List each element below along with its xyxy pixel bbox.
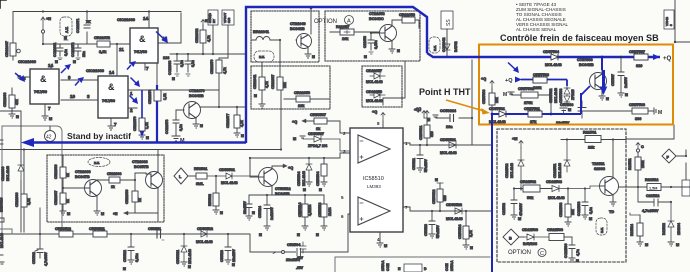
node +Q near CC58824: [414, 108, 430, 118]
svg-text:+Q: +Q: [663, 56, 672, 62]
wire CT21688 emitter down: [157, 213, 159, 222]
svg-text:CD57501: CD57501: [489, 107, 505, 111]
svg-text:MCL4148: MCL4148: [302, 171, 306, 186]
dashed box D6 option C: [497, 129, 626, 262]
svg-text:CD58507: CD58507: [308, 132, 324, 136]
svg-text:100k: 100k: [641, 160, 645, 168]
svg-text:Contrôle frein de faisceau moy: Contrôle frein de faisceau moyen SB: [500, 33, 659, 43]
svg-text:C58502: C58502: [32, 252, 36, 264]
svg-text:CD57504: CD57504: [543, 50, 560, 54]
svg-text:CC21663: CC21663: [168, 61, 172, 75]
svg-text:M: M: [303, 188, 306, 192]
svg-text:CR21659: CR21659: [399, 13, 415, 17]
svg-text:1,8k: 1,8k: [163, 93, 167, 100]
svg-text:CT58512: CT58512: [275, 187, 291, 191]
wire top right vertical: [675, 0, 690, 42]
svg-text:7: 7: [48, 106, 51, 111]
ground CR21687: [60, 211, 66, 215]
diode CD58521 MCL4148: [440, 138, 457, 155]
node +Q arrow right end: [653, 54, 660, 60]
wire emitter row y195: [249, 195, 324, 205]
svg-text:LM393: LM393: [367, 184, 381, 189]
diodes CD57502 CD57503 ZPD15: [549, 86, 575, 106]
svg-text:1u/100V: 1u/100V: [270, 206, 274, 220]
svg-text:MCL4148: MCL4148: [446, 217, 463, 221]
n.v. box CC21642: [429, 37, 446, 53]
wire oscillator node: [280, 40, 299, 62]
svg-text:1,8k: 1,8k: [145, 122, 149, 129]
blue arrow at gate2 pin2: [141, 90, 143, 131]
diode CD58504 MCL4148: [297, 158, 312, 192]
svg-text:M: M: [241, 134, 244, 138]
wire pin8 supply: [382, 121, 384, 128]
svg-text:CR21682: CR21682: [195, 29, 199, 43]
resistor CR57503 120k: [533, 73, 549, 90]
capacitor C57507 1u/50V: [611, 56, 628, 93]
transistor Q CT21686: [63, 170, 109, 211]
capacitor CC21672: [71, 43, 86, 64]
svg-text:+Q: +Q: [481, 77, 486, 81]
logic gate U2 74LV00 G2: [68, 70, 133, 127]
svg-text:2: 2: [343, 131, 346, 136]
svg-text:CC21673: CC21673: [165, 120, 169, 134]
svg-text:10n: 10n: [446, 125, 453, 129]
svg-text:10k: 10k: [571, 209, 575, 215]
svg-text:M: M: [589, 217, 592, 221]
arrow b: [65, 64, 72, 70]
wire pin4 ground: [379, 232, 381, 243]
svg-text:MCL4148: MCL4148: [548, 196, 565, 200]
svg-text:5: 5: [341, 195, 344, 200]
svg-text:C58512: C58512: [123, 250, 127, 262]
svg-text:BY: BY: [212, 19, 216, 23]
corner mark: [0, 0, 6, 8]
diode CD58507 ZPD2,7: [293, 132, 350, 151]
ground above node y114: [560, 108, 567, 111]
op-amp IC58510 box: [350, 128, 403, 232]
resistor CR57502 270k: [512, 87, 551, 114]
svg-text:M: M: [470, 246, 473, 250]
resistor CR57503 body: [533, 77, 547, 83]
capacitor C58512 0,22u: [123, 234, 139, 271]
svg-text:R21657: R21657: [336, 25, 349, 29]
node +H: [201, 19, 208, 25]
svg-text:CC21506: CC21506: [564, 244, 568, 258]
svg-text:3,9k: 3,9k: [27, 198, 31, 205]
svg-text:CC21671: CC21671: [76, 19, 80, 33]
capacitor C58521 47u/25V: [412, 145, 428, 173]
svg-text:0,1u: 0,1u: [180, 60, 184, 67]
svg-text:M: M: [16, 115, 19, 119]
diamond node B: [503, 229, 524, 245]
svg-text:22n: 22n: [82, 51, 86, 57]
svg-text:ZPD2,7 2%: ZPD2,7 2%: [308, 144, 328, 148]
svg-text:820: 820: [430, 131, 434, 137]
svg-text:7: 7: [405, 205, 408, 210]
label OPTION C: [508, 249, 546, 258]
svg-text:0,1u: 0,1u: [589, 207, 593, 214]
svg-text:C58514: C58514: [258, 206, 262, 218]
resistor CR21667: [5, 41, 20, 60]
svg-text:1N4004: 1N4004: [677, 223, 681, 235]
wire option A feed: [383, 61, 405, 105]
svg-text:270k: 270k: [524, 101, 533, 105]
resistor CR21641: [253, 62, 269, 108]
svg-text:MCL4148: MCL4148: [440, 151, 457, 155]
node H arrow: [41, 17, 51, 45]
svg-text:M: M: [64, 36, 67, 40]
svg-text:42: 42: [46, 135, 52, 141]
svg-text:22k: 22k: [588, 146, 595, 150]
svg-text:CR58512: CR58512: [55, 227, 71, 231]
capacitor C58523 47u/25V: [424, 211, 440, 239]
resistor R58502: [208, 176, 223, 215]
svg-text:M: M: [252, 211, 255, 215]
svg-text:C58521: C58521: [412, 158, 416, 170]
svg-text:+Q: +Q: [416, 107, 421, 111]
blue arrow into CT57506 emitter: [602, 70, 605, 87]
svg-text:A: A: [347, 19, 351, 25]
svg-text:M: M: [293, 137, 296, 141]
wire R21514 top: [630, 213, 640, 215]
svg-text:CR21503: CR21503: [559, 203, 563, 217]
svg-text:4,7k: 4,7k: [265, 81, 269, 88]
svg-text:133: 133: [163, 56, 169, 60]
blue wire orange-box node rail: [492, 93, 581, 272]
resistor CR58513 1k: [316, 203, 332, 237]
node +Q feed CR58507: [292, 119, 306, 124]
resistor CR21668 47k: [3, 88, 19, 119]
svg-text:CR57503: CR57503: [533, 73, 549, 77]
svg-text:BC848B: BC848B: [290, 27, 305, 31]
svg-text:M: M: [254, 94, 257, 98]
rounded box connector area: [2, 126, 62, 232]
diode CD57501 body: [499, 111, 506, 117]
svg-text:M: M: [67, 212, 70, 216]
svg-text:M: M: [146, 136, 149, 140]
node circle 42: [45, 126, 56, 142]
ground TD emitter: [610, 202, 616, 206]
svg-text:Point H THT: Point H THT: [419, 87, 471, 97]
svg-text:&: &: [139, 34, 146, 44]
svg-text:n.v.: n.v.: [433, 45, 437, 51]
svg-text:CD21506: CD21506: [522, 228, 538, 232]
svg-text:CR21641: CR21641: [253, 75, 257, 89]
node +Q arrow CR57503: [515, 77, 522, 83]
svg-text:M: M: [568, 108, 571, 112]
resistor CR58512: [55, 227, 73, 237]
capacitor C21502 47u/63V: [502, 189, 523, 222]
capacitor CC21503 0,1u: [577, 187, 593, 221]
svg-text:CR21637: CR21637: [271, 75, 275, 89]
svg-text:C57507: C57507: [611, 74, 615, 86]
svg-text:74LV00: 74LV00: [34, 90, 47, 94]
diode CD57501 MCL4148: [489, 107, 506, 124]
svg-text:BC848C: BC848C: [369, 17, 384, 21]
svg-text:CR58504: CR58504: [316, 172, 320, 186]
diode CD57504 MCL4148: [543, 50, 562, 67]
svg-text:R21511: R21511: [628, 158, 632, 170]
blue wire +Q line in orange box: [427, 53, 660, 57]
svg-text:C21658: C21658: [363, 36, 367, 48]
diode D21512 1N4004: [662, 201, 681, 247]
svg-text:CT21688: CT21688: [132, 160, 148, 164]
capacitor C21512 4,7u350V: [638, 187, 671, 213]
connector stubs left edge: [0, 218, 4, 264]
svg-text:TD: TD: [609, 210, 614, 214]
svg-text:OPTION: OPTION: [314, 19, 337, 25]
svg-text:CR58522: CR58522: [432, 190, 436, 204]
svg-text:SS: SS: [446, 19, 452, 26]
svg-text:4,7k: 4,7k: [240, 120, 244, 127]
n.v. ellipse in D5: [88, 158, 110, 167]
svg-text:CR21673: CR21673: [148, 90, 152, 104]
resistor CR21686: [54, 155, 70, 188]
svg-text:C58513: C58513: [220, 250, 224, 262]
svg-text:CR21672: CR21672: [94, 36, 110, 40]
arrow j in orange box: [513, 66, 519, 73]
resistor CR57506 390: [586, 103, 654, 121]
svg-text:+Q: +Q: [372, 110, 377, 114]
svg-text:M: M: [49, 117, 52, 121]
svg-text:1u/50V: 1u/50V: [624, 76, 628, 88]
label OPTION A: [314, 16, 354, 26]
wire from H down and across caps: [43, 12, 117, 45]
svg-text:MCL4148: MCL4148: [554, 88, 558, 103]
svg-text:R58502: R58502: [208, 194, 212, 206]
svg-text:2,7k: 2,7k: [469, 230, 473, 237]
wire net y187: [619, 186, 690, 188]
svg-text:M: M: [200, 124, 203, 128]
capacitor CC21671: [76, 19, 91, 33]
svg-text:CT21670: CT21670: [189, 89, 205, 93]
svg-text:C: C: [641, 145, 644, 149]
svg-text:OCH: OCH: [386, 263, 390, 271]
svg-text:MCL4148: MCL4148: [510, 163, 514, 178]
svg-text:M: M: [503, 92, 507, 98]
svg-text:C57506: C57506: [560, 103, 573, 107]
svg-text:CT57506: CT57506: [577, 58, 593, 62]
svg-text:0,1u: 0,1u: [179, 124, 183, 131]
arrow a: [19, 75, 25, 82]
svg-text:820: 820: [636, 64, 642, 68]
left column wires: [21, 126, 24, 232]
svg-text:0,1u: 0,1u: [191, 60, 195, 67]
resistor CR57507 820: [629, 50, 648, 68]
resistor CR57507 body: [634, 54, 648, 60]
ground G2 pin7: [108, 126, 114, 130]
orange arrow to node: [446, 100, 484, 111]
svg-text:M: M: [123, 267, 126, 271]
svg-text:CD58511: CD58511: [176, 250, 180, 264]
svg-text:M: M: [319, 188, 322, 192]
capacitor C58514 1u/100V: [258, 205, 274, 237]
svg-text:M: M: [364, 55, 367, 59]
diode CD21503 MCL4148: [546, 180, 599, 200]
svg-text:47u/63V: 47u/63V: [519, 202, 523, 216]
wire collector feed: [156, 63, 158, 85]
diode CD21502 MCL4148: [505, 148, 524, 190]
svg-text:CD21686: CD21686: [1, 167, 5, 181]
svg-text:CR21506: CR21506: [547, 228, 563, 232]
svg-text:6: 6: [341, 214, 344, 219]
junction top bus: [42, 10, 44, 12]
transistor Q CT21640: [290, 7, 312, 54]
wire left bus stubs: [0, 229, 12, 234]
inductor BR21641: [251, 30, 280, 40]
svg-text:MCL4148: MCL4148: [221, 181, 238, 185]
svg-text:BR21641: BR21641: [253, 30, 269, 34]
svg-text:M: M: [625, 93, 628, 97]
svg-text:M: M: [316, 233, 319, 237]
capacitor C58513: [220, 234, 236, 267]
svg-text:Stand by inactif: Stand by inactif: [67, 131, 131, 141]
svg-text:M: M: [606, 97, 609, 101]
resistor CR21677 4,7k: [226, 107, 244, 138]
svg-text:CD21657: CD21657: [366, 69, 382, 73]
svg-text:n.v.: n.v.: [600, 227, 604, 233]
diode CD57504 body: [551, 54, 558, 60]
svg-text:CR21666: CR21666: [15, 193, 19, 207]
svg-text:1k: 1k: [111, 185, 115, 189]
ground CT21686 emitter: [94, 211, 100, 215]
svg-text:n.v.: n.v.: [259, 55, 265, 59]
svg-text:AL CHASIS SENAL: AL CHASIS SENAL: [516, 27, 557, 32]
svg-text:C: C: [540, 251, 544, 257]
svg-text:22u/25V: 22u/25V: [232, 248, 236, 262]
svg-text:C21502: C21502: [502, 203, 506, 215]
capacitor CC21664: [185, 54, 195, 76]
resistor R21657 10k: [330, 25, 379, 41]
diamond node L: [174, 168, 196, 184]
svg-text:0,15u: 0,15u: [374, 40, 378, 49]
svg-text:CR58507: CR58507: [310, 113, 326, 117]
resistor CR58524 2,7k: [458, 211, 473, 250]
capacitor C57506 10u50V: [556, 101, 586, 125]
blue net gate2 to stand-by rail: [156, 85, 158, 143]
svg-text:CC21661: CC21661: [53, 43, 57, 57]
svg-text:M: M: [172, 77, 175, 81]
resistor CR57508 10k: [482, 88, 499, 114]
svg-text:CT21640: CT21640: [290, 22, 306, 26]
resistor CR21688: [107, 172, 146, 191]
svg-text:CR57507: CR57507: [629, 50, 645, 54]
svg-text:S2098: S2098: [594, 167, 605, 171]
svg-text:3k2L: 3k2L: [196, 182, 204, 186]
svg-text:CD58521: CD58521: [440, 138, 456, 142]
wire bus y158 to pin3: [250, 153, 350, 158]
svg-text:1: 1: [405, 141, 408, 146]
transistor Q CT21688: [132, 150, 163, 214]
svg-text:R58501: R58501: [194, 167, 207, 171]
svg-text:CD21551: CD21551: [553, 164, 557, 178]
n.v. box near T21511: [596, 218, 607, 235]
capacitor C58511 22u/25V: [243, 200, 255, 220]
resistor CR21672 3,3k: [94, 36, 110, 54]
ground CR57502 left: [508, 92, 514, 94]
arrow g: [134, 80, 140, 87]
dashed box resistors D3: [251, 66, 330, 109]
resistor CR21679 4,7k: [210, 58, 228, 107]
svg-text:M: M: [188, 265, 191, 269]
node +Q CR58521: [416, 107, 429, 118]
blue wire collector CT57506: [601, 57, 603, 70]
n.v. option box: [254, 51, 274, 62]
svg-text:OPTION: OPTION: [508, 250, 531, 256]
svg-text:T21511: T21511: [592, 162, 605, 166]
svg-text:B: B: [509, 237, 512, 241]
svg-text:M: M: [576, 259, 579, 263]
svg-text:47k: 47k: [15, 99, 19, 105]
resistor CR58511: [89, 227, 107, 237]
svg-text:ZPD15: ZPD15: [571, 89, 575, 100]
svg-text:4,7u350V: 4,7u350V: [642, 209, 659, 213]
svg-text:CD57502: CD57502: [549, 89, 553, 103]
svg-text:MCL4148: MCL4148: [366, 99, 383, 103]
diode CD58511 MCL4148: [176, 234, 192, 269]
resistor CR58521 820: [419, 118, 434, 145]
svg-text:CC58824: CC58824: [440, 109, 457, 113]
resistor CR21673 body: [154, 90, 161, 101]
svg-text:&: &: [108, 82, 115, 92]
orange highlight box Controle frein: [479, 45, 673, 125]
svg-text:MCL4148: MCL4148: [6, 166, 10, 181]
svg-text:22k: 22k: [298, 104, 305, 108]
resistor R58501: [194, 167, 207, 186]
resistor R21511 100k: [628, 152, 645, 187]
svg-text:+M: +M: [512, 137, 517, 141]
wire CC58824 row: [436, 60, 472, 145]
arrow c: [78, 77, 85, 83]
svg-text:CR21689: CR21689: [125, 190, 129, 204]
pin labels IC58510: [341, 121, 408, 242]
svg-text:CD21503: CD21503: [546, 180, 562, 184]
capacitor C58504 22u/25V: [273, 243, 306, 262]
connector box top right: [664, 10, 674, 29]
capacitor C21658: [363, 32, 379, 59]
svg-text:M: M: [220, 211, 223, 215]
svg-text:n.v.: n.v.: [94, 161, 100, 165]
svg-text:M: M: [259, 233, 262, 237]
diode CD58522 MCL4148: [446, 203, 463, 221]
svg-text:CR21656: CR21656: [294, 91, 310, 95]
svg-text:+Q: +Q: [292, 120, 297, 124]
resistor CR21687: [54, 187, 70, 211]
svg-text:CC21503: CC21503: [577, 202, 581, 216]
resistor CR21666 3,9k: [15, 193, 31, 207]
resistor CR21656 22k: [284, 91, 330, 108]
resistor R21501 22k: [561, 131, 626, 150]
wire op-amp out pin7 net y211: [403, 207, 491, 211]
svg-text:BR58515: BR58515: [0, 198, 4, 212]
dashed box diodes D4: [362, 66, 402, 107]
svg-text:CD58501: CD58501: [219, 168, 235, 172]
svg-text:CD58504: CD58504: [297, 172, 301, 186]
svg-text:&: &: [40, 74, 47, 84]
box right edge mid: [682, 180, 690, 196]
wire y111 left: [0, 111, 21, 126]
resistor CR21659: [392, 13, 419, 28]
svg-text:165AA: 165AA: [450, 260, 454, 271]
op-amp A triangle: [358, 135, 390, 163]
op-amp B triangle: [358, 197, 390, 225]
capacitor CC21661: [53, 43, 68, 64]
svg-text:1,5M: 1,5M: [649, 187, 657, 191]
svg-text:14: 14: [109, 70, 115, 75]
capacitor C58502 4,7u/63V: [32, 208, 48, 266]
svg-text:CD21502: CD21502: [505, 164, 509, 178]
svg-text:MCL4148: MCL4148: [545, 63, 562, 67]
